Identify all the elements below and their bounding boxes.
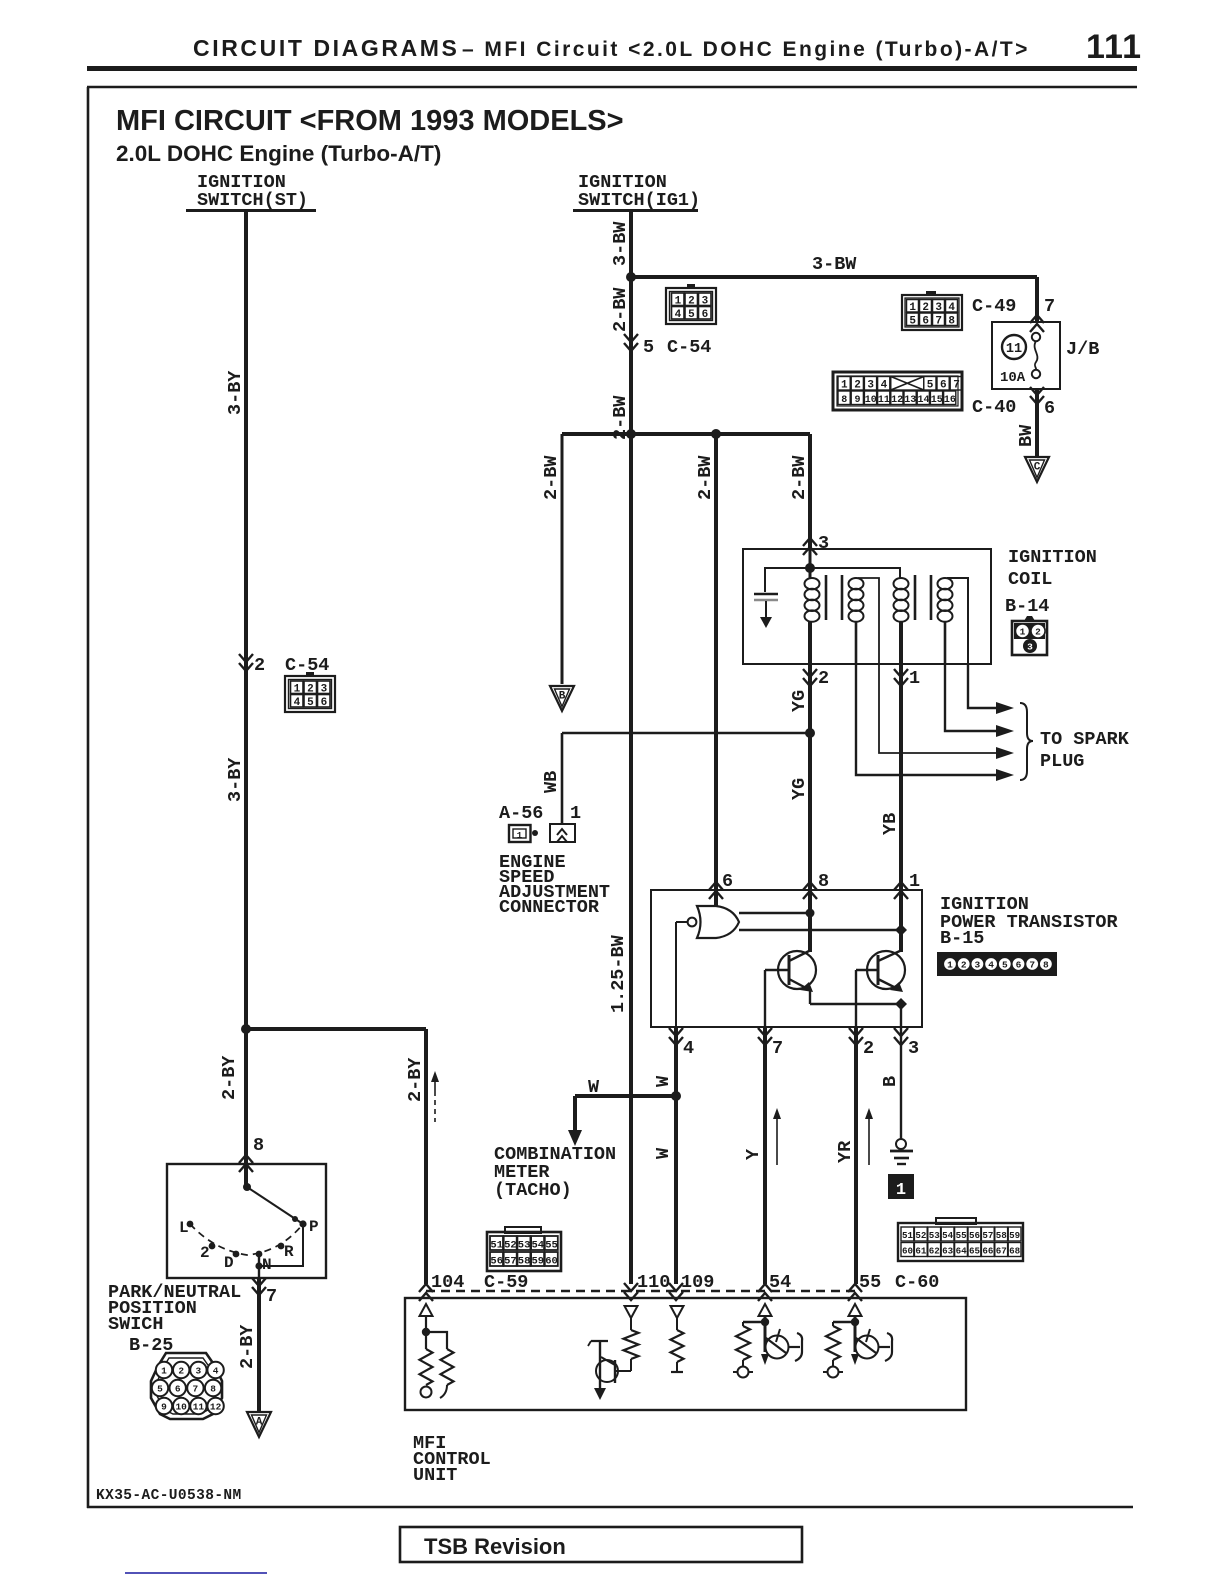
primary 1 winding [809, 549, 812, 578]
wire to engine speed adjustment connector [562, 732, 810, 735]
junction inside coil [805, 563, 815, 573]
svg-text:51: 51 [490, 1240, 503, 1252]
junction W [671, 1091, 681, 1101]
pass B-15 pin 4 [669, 1028, 683, 1036]
wire 2-BY to connector A [257, 1278, 261, 1412]
svg-text:5: 5 [1002, 960, 1008, 971]
svg-text:KX35-AC-U0538-NM: KX35-AC-U0538-NM [96, 1488, 242, 1504]
ground ref black box 1 [888, 1174, 914, 1199]
svg-text:SWITCH(IG1): SWITCH(IG1) [578, 190, 700, 211]
svg-text:52: 52 [504, 1240, 517, 1252]
svg-text:3: 3 [975, 960, 981, 971]
connector pass C-54 pin 5 [624, 334, 638, 342]
svg-text:B: B [880, 1076, 901, 1087]
svg-text:54: 54 [531, 1240, 544, 1252]
connector pass B-25 pin 8 [239, 1155, 253, 1163]
svg-text:B-15: B-15 [940, 928, 984, 949]
svg-text:1: 1 [1020, 627, 1026, 638]
connector B-15 icon [938, 953, 1056, 975]
wire B pin 3 to ground [900, 1027, 902, 1140]
svg-text:MFI CIRCUIT <FROM 1993 MODELS>: MFI CIRCUIT <FROM 1993 MODELS> [116, 105, 624, 137]
spark plug lead 1 [968, 664, 998, 708]
svg-text:7: 7 [772, 1038, 783, 1059]
svg-text:1.25-BW: 1.25-BW [608, 934, 629, 1013]
contact R [278, 1243, 285, 1250]
condenser branch [765, 568, 810, 592]
svg-text:60: 60 [545, 1256, 558, 1268]
svg-text:55: 55 [956, 1230, 968, 1241]
svg-text:5: 5 [688, 309, 695, 321]
svg-text:3: 3 [818, 533, 829, 554]
svg-text:1: 1 [517, 831, 523, 841]
contact L [187, 1221, 194, 1228]
junction ST wire to 2-BY branch [241, 1024, 251, 1034]
svg-text:8: 8 [210, 1384, 216, 1395]
svg-text:7: 7 [935, 316, 942, 328]
svg-text:2.0L DOHC Engine (Turbo-A/T): 2.0L DOHC Engine (Turbo-A/T) [116, 141, 441, 166]
svg-text:YG: YG [789, 778, 810, 800]
svg-text:5: 5 [927, 380, 934, 392]
capacitor [754, 593, 778, 596]
svg-text:3: 3 [1027, 642, 1033, 653]
svg-text:IGNITION: IGNITION [1008, 547, 1097, 568]
pin 55 circuit [849, 1304, 862, 1316]
svg-text:15: 15 [931, 395, 943, 406]
svg-text:2: 2 [818, 668, 829, 689]
svg-text:2-BW: 2-BW [610, 287, 631, 332]
svg-text:6: 6 [1016, 960, 1022, 971]
wire 3-BW / 2-BW / 1.25-BW main vertical [629, 212, 633, 1284]
wire N down [258, 1254, 260, 1278]
svg-text:3: 3 [935, 302, 942, 314]
svg-text:13: 13 [904, 395, 916, 406]
wire 3-BY from ignition switch ST [244, 212, 248, 1188]
svg-text:C-40: C-40 [972, 397, 1016, 418]
pass B-15 pin 2 [849, 1028, 863, 1036]
fuse 11 circle [1002, 335, 1026, 359]
svg-text:4: 4 [213, 1366, 219, 1377]
svg-text:COIL: COIL [1008, 569, 1052, 590]
connector C-54 icon (lower) [285, 676, 335, 712]
svg-text:3-BW: 3-BW [610, 221, 631, 266]
svg-text:52: 52 [915, 1230, 926, 1241]
junction block J/B box [992, 322, 1060, 389]
svg-text:4: 4 [683, 1038, 694, 1059]
svg-text:65: 65 [969, 1246, 981, 1257]
svg-text:WB: WB [541, 771, 562, 793]
svg-text:57: 57 [504, 1256, 517, 1268]
svg-text:4: 4 [988, 960, 994, 971]
svg-text:68: 68 [1009, 1246, 1021, 1257]
svg-text:14: 14 [917, 395, 929, 406]
svg-text:4: 4 [675, 309, 682, 321]
gate input wire to pin 4 [676, 921, 688, 923]
svg-text:– MFI Circuit <2.0L DOHC Engin: – MFI Circuit <2.0L DOHC Engine (Turbo)-… [462, 38, 1030, 61]
svg-text:66: 66 [982, 1246, 993, 1257]
pass MFI pin 104 [419, 1284, 433, 1292]
flow arrow on 2-BY [434, 1080, 436, 1096]
svg-text:7: 7 [1029, 960, 1035, 971]
svg-text:111: 111 [1086, 28, 1142, 66]
svg-text:R: R [284, 1243, 294, 1261]
transistor 2 [867, 951, 905, 989]
fuse symbol 10A [1032, 333, 1040, 341]
gate output bottom [739, 929, 901, 931]
svg-text:12: 12 [891, 395, 903, 406]
svg-text:A-56: A-56 [499, 803, 543, 824]
svg-text:67: 67 [996, 1246, 1007, 1257]
svg-text:1: 1 [947, 960, 953, 971]
svg-text:C: C [1034, 462, 1041, 474]
spark plug lead 2 [945, 664, 998, 731]
svg-text:55: 55 [545, 1240, 558, 1252]
spark plug lead 4 [856, 664, 998, 775]
svg-text:6: 6 [922, 316, 929, 328]
svg-text:57: 57 [982, 1230, 993, 1241]
svg-text:2-BW: 2-BW [789, 455, 810, 500]
svg-text:2: 2 [178, 1366, 184, 1377]
svg-text:62: 62 [929, 1246, 940, 1257]
svg-text:L: L [179, 1219, 189, 1237]
blue artifact line [125, 1572, 267, 1574]
svg-text:2-BY: 2-BY [219, 1055, 240, 1100]
connector C-60 icon [898, 1223, 1023, 1261]
svg-text:UNIT: UNIT [413, 1465, 457, 1486]
svg-text:11: 11 [878, 395, 890, 406]
secondary 1 bottom lead [855, 621, 858, 664]
svg-text:7: 7 [266, 1286, 277, 1307]
svg-text:53: 53 [929, 1230, 941, 1241]
svg-text:16: 16 [944, 395, 956, 406]
page header rule [87, 66, 1137, 71]
svg-text:2-BY: 2-BY [405, 1057, 426, 1102]
connector C-40 icon [833, 372, 962, 410]
wire 2-BW horizontal [562, 432, 810, 436]
svg-text:5: 5 [307, 697, 314, 709]
svg-text:4: 4 [881, 380, 888, 392]
connector B triangle [550, 686, 574, 711]
svg-text:8: 8 [253, 1135, 264, 1156]
svg-text:B-14: B-14 [1005, 596, 1049, 617]
connector A-56 pin box [550, 824, 575, 842]
svg-text:7: 7 [953, 380, 960, 392]
connector C-54 icon (upper) [666, 288, 716, 324]
svg-text:CIRCUIT DIAGRAMS: CIRCUIT DIAGRAMS [193, 35, 459, 61]
secondary 2 top lead [947, 578, 968, 664]
connector C-49 icon [902, 295, 962, 330]
svg-text:9: 9 [161, 1402, 167, 1413]
svg-text:(TACHO): (TACHO) [494, 1180, 572, 1201]
svg-text:60: 60 [902, 1246, 913, 1257]
svg-text:7: 7 [193, 1384, 199, 1395]
junction 3-BW [626, 272, 636, 282]
svg-text:56: 56 [490, 1256, 503, 1268]
svg-text:10: 10 [175, 1402, 187, 1413]
svg-text:10: 10 [865, 395, 877, 406]
svg-text:8: 8 [1043, 960, 1049, 971]
wire 2-BW down to connector B [561, 434, 564, 684]
svg-text:53: 53 [518, 1240, 531, 1252]
svg-text:SWITCH(ST): SWITCH(ST) [197, 190, 308, 211]
svg-text:D: D [224, 1254, 234, 1272]
svg-text:W: W [653, 1075, 674, 1087]
svg-text:54: 54 [942, 1230, 954, 1241]
TSB revision box [400, 1527, 802, 1562]
svg-text:3-BY: 3-BY [225, 757, 246, 802]
svg-text:2: 2 [922, 302, 929, 314]
svg-text:56: 56 [969, 1230, 980, 1241]
svg-text:1: 1 [909, 871, 920, 892]
brace [1020, 703, 1033, 780]
svg-text:TSB Revision: TSB Revision [424, 1534, 566, 1559]
switch contact arc dashed [190, 1224, 303, 1255]
svg-text:PLUG: PLUG [1040, 751, 1084, 772]
svg-text:8: 8 [818, 871, 829, 892]
secondary 1 top lead [858, 578, 879, 664]
transistor 1 [778, 951, 816, 989]
secondary 2 bottom lead [944, 621, 947, 664]
wire to primary 2 [810, 568, 900, 578]
spark plug lead 3 [879, 664, 998, 753]
svg-text:SWICH: SWICH [108, 1314, 164, 1335]
junction at 716 [711, 429, 721, 439]
connector pass coil pin 1 [894, 669, 908, 677]
svg-text:1: 1 [909, 302, 916, 314]
pin 109 circuit [671, 1306, 684, 1318]
diagram frame [87, 86, 1137, 89]
junction 2-BW [626, 429, 636, 439]
connector pass coil pin 2 [803, 669, 817, 677]
svg-text:4: 4 [294, 697, 301, 709]
svg-text:6: 6 [940, 380, 947, 392]
wire YR pin 2 down [854, 1027, 858, 1284]
svg-text:8: 8 [948, 316, 955, 328]
gate output top [739, 912, 810, 914]
wire W pin 4 down [674, 1027, 678, 1284]
core bars 1 [825, 575, 828, 620]
svg-text:6: 6 [1044, 398, 1055, 419]
connector pass C-40 pin 6 [1030, 387, 1044, 395]
svg-text:58: 58 [996, 1230, 1008, 1241]
svg-text:W: W [653, 1147, 674, 1159]
svg-text:Y: Y [743, 1148, 764, 1160]
svg-text:5: 5 [157, 1384, 163, 1395]
svg-text:5: 5 [643, 337, 654, 358]
svg-text:11: 11 [193, 1402, 205, 1413]
svg-text:1: 1 [161, 1366, 167, 1377]
svg-text:61: 61 [915, 1246, 927, 1257]
connector pass B-25 pin 7 [252, 1278, 266, 1286]
connector pass coil pin 3 [803, 538, 817, 546]
wire 1 to transistor 2 collector [899, 890, 903, 952]
svg-text:12: 12 [210, 1402, 222, 1413]
pin 104 input circuit [420, 1304, 433, 1316]
pass B-15 pin 6 [709, 882, 723, 890]
connector C-59 icon [487, 1232, 561, 1271]
wire 2-BY down to MFI pin 104 [424, 1029, 428, 1284]
contact D [233, 1251, 240, 1258]
svg-text:3-BW: 3-BW [812, 254, 857, 275]
svg-text:YR: YR [835, 1140, 856, 1163]
svg-text:2-BW: 2-BW [695, 455, 716, 500]
svg-text:6: 6 [175, 1384, 181, 1395]
svg-text:9: 9 [854, 395, 860, 406]
svg-text:55: 55 [859, 1272, 881, 1293]
pass B-15 pin 1 [894, 882, 908, 890]
nand gate [697, 906, 739, 938]
pass MFI pin 54 [758, 1284, 772, 1292]
svg-text:51: 51 [902, 1230, 914, 1241]
wire 3-BW horizontal [631, 275, 1037, 279]
svg-text:2: 2 [863, 1038, 874, 1059]
wire from P to N junction [259, 1224, 303, 1266]
svg-text:P: P [309, 1218, 319, 1236]
svg-text:A: A [256, 1417, 263, 1429]
svg-text:1: 1 [841, 380, 848, 392]
svg-text:2-BY: 2-BY [237, 1324, 258, 1369]
MFI control unit box [405, 1298, 966, 1410]
secondary 2 winding [938, 578, 953, 589]
svg-text:8: 8 [841, 395, 847, 406]
connector B-25 icon [151, 1353, 222, 1419]
wire 8 to transistor 1 collector [808, 890, 812, 952]
wire 2-BW down to coil pin 3 [808, 434, 812, 549]
wire to C-40 pin 6 [1035, 277, 1039, 322]
primary 2 winding [894, 578, 909, 589]
ignition coil box B-14 [743, 549, 991, 664]
contact P [299, 1220, 306, 1227]
core bars 2 [914, 575, 917, 620]
pin 110 circuit [625, 1306, 638, 1318]
connector pass C-54 pin 2 [239, 654, 253, 662]
ignition power transistor box B-15 [651, 890, 922, 1027]
svg-text:2: 2 [200, 1244, 210, 1262]
connector A triangle [247, 1412, 271, 1437]
svg-text:C-60: C-60 [895, 1272, 939, 1293]
svg-text:2: 2 [254, 655, 265, 676]
svg-text:W: W [588, 1077, 600, 1098]
svg-text:BW: BW [1016, 424, 1037, 447]
svg-text:63: 63 [942, 1246, 954, 1257]
pin 54 circuit [759, 1304, 772, 1316]
svg-text:58: 58 [518, 1256, 531, 1268]
svg-text:CONNECTOR: CONNECTOR [499, 897, 600, 918]
pass MFI pin 55 [848, 1284, 862, 1292]
svg-text:3-BY: 3-BY [225, 370, 246, 415]
connector C triangle [1025, 457, 1049, 482]
pass MFI pin 110 [624, 1283, 638, 1291]
svg-text:2: 2 [854, 380, 861, 392]
svg-text:3: 3 [908, 1038, 919, 1059]
svg-text:C-49: C-49 [972, 296, 1016, 317]
pass B-15 pin 3 [894, 1028, 908, 1036]
svg-text:59: 59 [1009, 1230, 1020, 1241]
MFI connector boundary dashed [426, 1290, 860, 1292]
switch pivot [243, 1183, 251, 1191]
pass MFI pin 109 [669, 1283, 683, 1291]
wire YG from coil pin 2 to B-15 pin 8 [808, 621, 812, 890]
wire YB from coil pin 1 to B-15 pin 1 [899, 621, 903, 890]
svg-text:10A: 10A [1000, 370, 1026, 386]
ground symbol [896, 1139, 906, 1149]
svg-text:YB: YB [880, 813, 901, 835]
svg-text:6: 6 [321, 697, 328, 709]
contact 2 [209, 1243, 216, 1250]
svg-text:3: 3 [196, 1366, 202, 1377]
svg-text:B: B [559, 691, 566, 703]
junction YG / engine speed branch [805, 728, 815, 738]
pass B-15 pin 7 [758, 1028, 772, 1036]
wire 2-BW down to B-15 pin 6 [714, 434, 718, 908]
svg-text:1: 1 [896, 1181, 906, 1200]
contact N [256, 1251, 263, 1258]
svg-text:2-BW: 2-BW [541, 455, 562, 500]
secondary 1 winding [849, 578, 864, 589]
svg-text:11: 11 [1006, 342, 1022, 357]
park/neutral position switch box B-25 [167, 1164, 326, 1278]
svg-text:59: 59 [531, 1256, 544, 1268]
svg-text:YG: YG [789, 690, 810, 712]
wire Y pin 7 down [763, 1027, 767, 1284]
svg-text:J/B: J/B [1066, 339, 1099, 360]
svg-text:4: 4 [948, 302, 955, 314]
svg-text:1: 1 [909, 668, 920, 689]
switch arm to P [247, 1187, 303, 1224]
connector B-14 icon [1012, 621, 1047, 655]
svg-text:64: 64 [956, 1246, 968, 1257]
pass B-15 pin 8 [803, 882, 817, 890]
svg-text:6: 6 [722, 871, 733, 892]
svg-text:1: 1 [570, 803, 581, 824]
svg-text:5: 5 [909, 316, 916, 328]
svg-text:2: 2 [1035, 627, 1041, 638]
wire W to combination meter [575, 1094, 676, 1098]
svg-text:7: 7 [1044, 296, 1055, 317]
svg-text:6: 6 [702, 309, 709, 321]
svg-text:TO SPARK: TO SPARK [1040, 729, 1130, 750]
svg-text:C-54: C-54 [667, 337, 711, 358]
svg-text:3: 3 [867, 380, 874, 392]
wire 2-BY horizontal [246, 1027, 426, 1031]
svg-text:2: 2 [961, 960, 967, 971]
